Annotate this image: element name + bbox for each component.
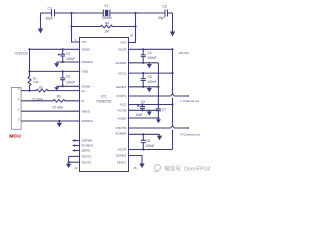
capacitor C8 — [141, 134, 155, 149]
svg-text:C4: C4 — [148, 51, 152, 55]
capacitor C5 — [60, 71, 75, 86]
svg-text:1.5k: 1.5k — [33, 80, 39, 84]
wire (PLYBCK stub) — [72, 144, 80, 146]
wire — [110, 12, 165, 14]
svg-text:VCCR: VCCR — [118, 148, 128, 152]
wire (DGNDC) — [57, 61, 80, 63]
svg-text:DGNDU: DGNDU — [82, 119, 93, 123]
ground (AGNDP) — [147, 63, 152, 68]
wire (XTO drop) — [129, 13, 136, 43]
wire (VDDC rail) — [30, 48, 80, 50]
wire (AGNDR) — [129, 133, 160, 135]
node VCCL junction — [171, 72, 173, 74]
node +5V corner junction — [171, 48, 173, 50]
node C4 to AGNDP junction — [142, 62, 144, 64]
capacitor C4 — [141, 49, 157, 63]
svg-text:AGNDR: AGNDR — [115, 132, 127, 136]
ground (DGND1) — [139, 164, 144, 169]
resistor R3 — [21, 95, 79, 110]
svg-text:PCM2702: PCM2702 — [96, 100, 111, 104]
svg-text:C2: C2 — [163, 5, 167, 9]
svg-text:+5V DC: +5V DC — [178, 51, 190, 55]
svg-text:DGND: DGND — [82, 84, 92, 88]
svg-text:C3: C3 — [66, 52, 70, 56]
node R4 right junction — [134, 25, 136, 27]
svg-text:ZERO: ZERO — [82, 149, 91, 153]
wire (AGND) — [129, 117, 159, 119]
node VOUTR end — [187, 127, 189, 129]
node C6 junction — [142, 72, 144, 74]
wire — [55, 12, 104, 14]
op-amp U1 : IC1 PCM2702 body — [80, 38, 129, 172]
node AGNDL rail junction — [157, 86, 159, 88]
wire (VCCL) — [129, 72, 173, 74]
node VDD junction — [28, 70, 30, 72]
svg-text:VCCP: VCCP — [118, 48, 127, 52]
svg-text:VCOM: VCOM — [117, 108, 127, 112]
svg-text:D+: D+ — [82, 89, 86, 93]
wire (VOUTR) — [129, 127, 189, 129]
node VCC rail junction — [171, 103, 173, 105]
svg-text:TEST1: TEST1 — [82, 155, 92, 159]
wire (TEST drop) — [68, 156, 70, 163]
svg-text:15: 15 — [134, 166, 138, 170]
node XTO net junction — [134, 12, 136, 14]
wire (VBUS) — [21, 110, 79, 112]
crystal Y1 — [102, 4, 113, 20]
svg-text:TEST1: TEST1 — [117, 160, 127, 164]
node TEST junction — [68, 161, 70, 163]
ground (right of C2) — [170, 32, 175, 37]
svg-text:30pF: 30pF — [158, 16, 165, 20]
wire (TEST1) — [69, 155, 80, 157]
svg-text:XTO: XTO — [120, 41, 127, 45]
wire (AGND rail upper) — [157, 63, 159, 109]
svg-text:12MHz: 12MHz — [102, 16, 113, 20]
node C6 to AGNDL junction — [142, 86, 144, 88]
svg-text:10uF: 10uF — [135, 113, 142, 117]
watermark icon — [154, 165, 161, 172]
svg-text:VCCL: VCCL — [118, 71, 127, 75]
ground (AGND) — [156, 118, 161, 123]
svg-text:微信号: OpenFPGA: 微信号: OpenFPGA — [165, 164, 211, 172]
node D+ pullup junction — [28, 90, 30, 92]
capacitor C1 — [46, 7, 55, 21]
node VOUTL end — [187, 95, 189, 97]
svg-text:100nF: 100nF — [148, 56, 157, 60]
node C5 junction — [62, 70, 64, 72]
svg-text:C8: C8 — [146, 139, 150, 143]
wire (VCC) — [129, 104, 173, 106]
node C8 top junction — [142, 133, 144, 135]
svg-text:C6: C6 — [148, 75, 152, 79]
wire (VOUTL hop) — [171, 94, 174, 96]
resistor R2 — [21, 86, 79, 102]
svg-text:R3: R3 — [57, 95, 61, 99]
wire (DGNDU) — [21, 120, 79, 122]
wire (AGNDP) — [129, 62, 159, 64]
ground (DGNDC) — [54, 62, 59, 67]
svg-text:14: 14 — [74, 166, 78, 170]
svg-text:VCC: VCC — [120, 103, 127, 107]
wire — [168, 13, 173, 32]
ground (TEST) — [66, 164, 71, 168]
svg-text:XTI: XTI — [82, 40, 87, 44]
svg-text:VDDC: VDDC — [82, 48, 92, 52]
svg-text:C9: C9 — [141, 100, 145, 104]
wire (VCCP to +5V) — [129, 48, 173, 50]
svg-text:R Channel out: R Channel out — [181, 132, 200, 136]
svg-text:C7: C7 — [162, 107, 166, 111]
wire (VCCR row to +5V rail end) — [129, 149, 173, 151]
svg-text:L Channel out: L Channel out — [181, 99, 200, 103]
ground (AGNDR) — [157, 134, 162, 140]
wire (VOUTL) — [129, 95, 189, 97]
wire (VCOM) — [129, 109, 159, 111]
node C8 bottom junction — [142, 148, 144, 150]
svg-text:AGND: AGND — [118, 116, 128, 120]
node C3 to DGNDC junction — [62, 61, 64, 63]
svg-text:VOUTR: VOUTR — [116, 126, 128, 130]
wire (XTI drop) — [72, 13, 80, 42]
capacitor C6 — [141, 73, 157, 87]
node C3 junction — [62, 48, 64, 50]
svg-text:VDD: VDD — [82, 70, 89, 74]
transistor Q0 : MCU connector box — [9, 87, 21, 139]
ground (DGND) — [54, 86, 59, 90]
node C7 to AGND junction — [157, 117, 159, 119]
resistor R4 — [72, 21, 136, 33]
wire (TEST2) — [69, 161, 80, 163]
node +3.3V DC — [14, 48, 31, 55]
svg-text:AGNDP: AGNDP — [115, 61, 126, 65]
svg-text:R2: R2 — [39, 86, 43, 90]
svg-text:100nF: 100nF — [148, 80, 157, 84]
node R4 left junction — [70, 25, 72, 27]
svg-text:IC1: IC1 — [101, 95, 106, 99]
svg-text:100uF: 100uF — [66, 57, 75, 61]
node C5 to DGND junction — [62, 85, 64, 87]
svg-text:C5: C5 — [66, 75, 70, 79]
svg-text:MCU: MCU — [9, 133, 21, 139]
svg-text:20: 20 — [130, 33, 134, 37]
ground (DGNDU) — [57, 121, 62, 127]
node C9 junction — [141, 103, 143, 105]
capacitor C7 — [156, 107, 166, 118]
node C9 to VCOM junction — [141, 109, 143, 111]
capacitor C3 — [58, 49, 75, 62]
capacitor C2 — [158, 5, 168, 21]
svg-text:D-: D- — [82, 99, 85, 103]
svg-text:PLYBCK: PLYBCK — [82, 144, 95, 148]
svg-text:1M: 1M — [104, 29, 109, 33]
node C7 junction — [157, 103, 159, 105]
svg-text:100nF: 100nF — [145, 144, 154, 148]
wire (ZERO stub) — [72, 149, 80, 151]
ground (VCOM row) — [147, 110, 152, 115]
svg-text:100nF: 100nF — [66, 80, 75, 84]
svg-text:R4: R4 — [105, 21, 109, 25]
capacitor C9 — [135, 100, 145, 117]
wire (+5V rail) — [172, 49, 174, 149]
resistor R1 — [28, 49, 39, 90]
wire (VOUTR hop) — [171, 126, 174, 128]
svg-text:DGNDC: DGNDC — [82, 60, 94, 64]
ground (AGNDL) — [147, 87, 152, 92]
svg-text:30pF: 30pF — [46, 17, 53, 21]
node XTI net junction — [70, 12, 72, 14]
svg-text:VOUTL: VOUTL — [116, 94, 127, 98]
svg-text:TEST2: TEST2 — [82, 160, 92, 164]
svg-text:22 ohm: 22 ohm — [52, 105, 63, 109]
ground (left of C1) — [38, 13, 43, 34]
wire (DGND1) — [129, 156, 143, 164]
svg-text:AGNDL: AGNDL — [116, 85, 127, 89]
svg-text:+3.3V DC: +3.3V DC — [14, 52, 29, 56]
wire (VDD rail) — [30, 70, 80, 72]
svg-text:C1: C1 — [48, 7, 52, 11]
node DGNDU junction — [58, 120, 60, 122]
node C4 junction — [142, 48, 144, 50]
svg-text:SSPND: SSPND — [82, 139, 93, 143]
wire — [41, 12, 52, 14]
svg-text:VBUS: VBUS — [82, 109, 90, 113]
svg-text:DGND1: DGND1 — [116, 154, 127, 158]
wire (DGND) — [57, 85, 80, 87]
wire (SSPND stub) — [72, 139, 80, 141]
wire (AGNDL) — [129, 86, 159, 88]
svg-text:Y1: Y1 — [104, 4, 108, 8]
